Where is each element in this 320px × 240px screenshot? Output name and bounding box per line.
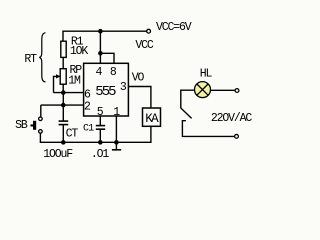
svg-text:.O1: .O1 [91,148,110,161]
svg-text:3: 3 [120,81,127,94]
svg-text:4: 4 [96,66,103,79]
svg-text:555: 555 [95,84,116,100]
svg-text:C1: C1 [83,124,94,135]
svg-text:RT: RT [24,53,37,66]
svg-text:SB: SB [15,119,28,132]
svg-text:VCC=6V: VCC=6V [156,21,192,34]
svg-text:HL: HL [200,68,213,81]
svg-text:1M: 1M [68,75,81,88]
svg-text:2: 2 [84,101,91,114]
svg-text:5: 5 [97,106,104,119]
svg-text:VCC: VCC [135,39,154,52]
svg-text:KA: KA [145,112,159,126]
svg-text:VO: VO [132,72,145,85]
svg-text:1: 1 [113,106,120,119]
svg-text:8: 8 [110,66,117,79]
svg-text:6: 6 [84,88,91,101]
svg-text:22OV/AC: 22OV/AC [211,112,253,125]
svg-text:1OK: 1OK [70,45,89,58]
svg-text:CT: CT [66,128,79,141]
svg-text:1OOuF: 1OOuF [43,148,73,161]
